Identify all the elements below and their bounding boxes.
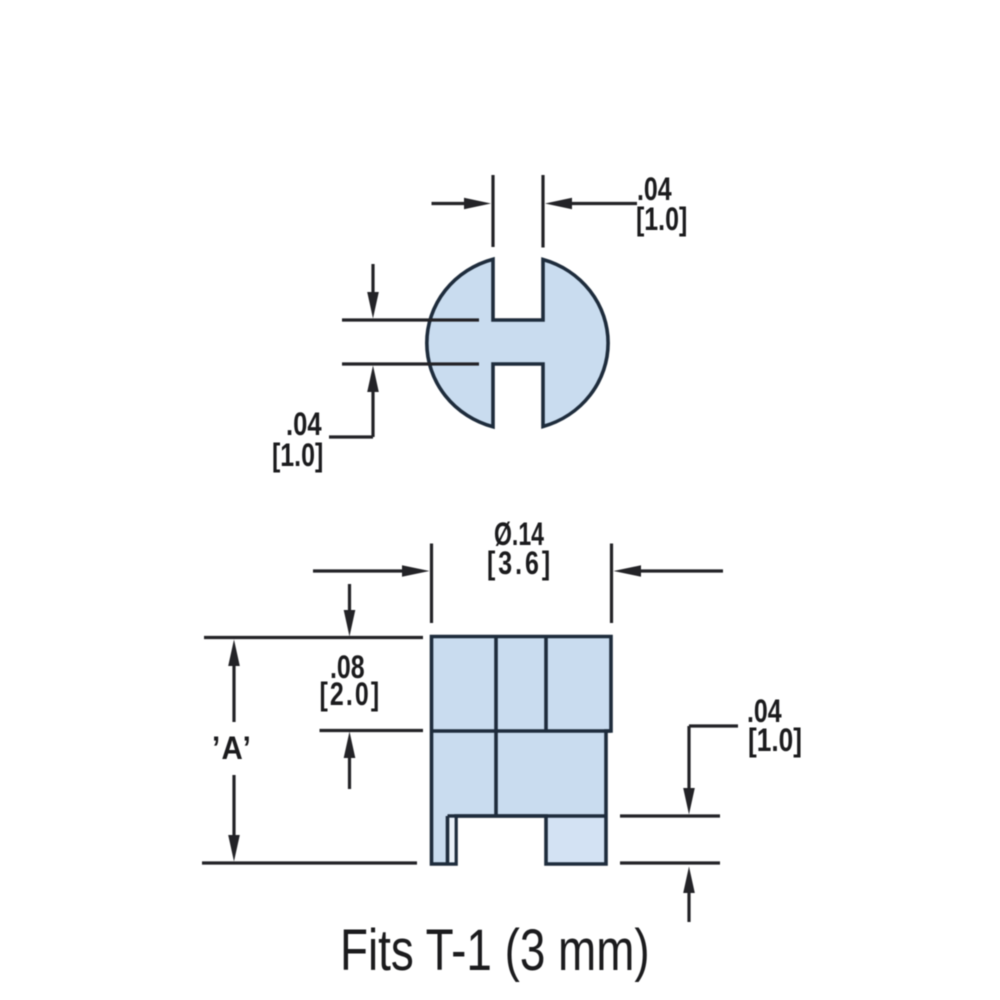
.08 arrow up [344, 732, 356, 759]
.08 extension line [320, 729, 424, 732]
right .04 arrow up [683, 867, 695, 894]
svg-text:[1.0]: [1.0] [272, 438, 323, 474]
svg-text:[1.0]: [1.0] [748, 724, 802, 759]
'A' bottom extension line [202, 861, 417, 864]
'A' dim arrow down [232, 775, 235, 837]
leg inner step strip [449, 818, 455, 863]
'A' top extension line [204, 636, 423, 639]
right .04 extension line lower [620, 861, 720, 864]
spacer side-view silhouette [432, 637, 612, 865]
middle extension line lower [342, 362, 479, 365]
left dim arrow up [367, 366, 379, 393]
body bottom line [448, 814, 607, 818]
svg-text:’A’: ’A’ [212, 730, 252, 766]
svg-text:Fits T-1 (3 mm): Fits T-1 (3 mm) [340, 919, 650, 983]
flange bottom line [432, 729, 612, 733]
extension line above slot right [541, 175, 544, 248]
arrow right-pointing at slot left [464, 198, 491, 209]
flange divider left [494, 637, 498, 817]
spacer top-view body [427, 259, 608, 427]
top dimension line left segment [432, 202, 469, 205]
dia dim line left [313, 569, 406, 572]
top dimension line right segment [569, 202, 637, 205]
arrow left-pointing at slot right [545, 198, 572, 209]
leg step line [446, 816, 450, 864]
dia dim line right [637, 569, 723, 572]
.08 arrow down [348, 584, 351, 614]
svg-text:[2.0]: [2.0] [320, 677, 382, 713]
dia extension line left [430, 544, 433, 624]
right .04 arrow down [687, 726, 690, 790]
dia extension line right [610, 544, 613, 624]
right .04 leader [689, 724, 738, 727]
right .04 extension line upper [620, 814, 720, 817]
extension line above slot left [491, 175, 494, 247]
svg-text:[1.0]: [1.0] [636, 202, 687, 238]
flange divider right [544, 637, 548, 732]
'A' dim arrow up [228, 640, 240, 667]
foot light overlay [548, 818, 604, 862]
left dim arrow down [371, 264, 374, 296]
left dim leader [329, 435, 373, 438]
middle extension line upper [342, 318, 479, 321]
svg-text:[3.6]: [3.6] [487, 546, 553, 582]
